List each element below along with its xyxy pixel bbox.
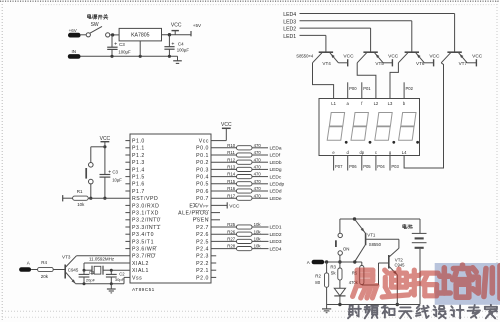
svg-text:P2.0: P2.0 — [196, 275, 209, 281]
svg-text:ALE/PROG: ALE/PROG — [178, 211, 209, 217]
svg-text:LED2: LED2 — [283, 27, 296, 33]
pin P02 (segment) — [404, 82, 414, 98]
svg-text:L1: L1 — [331, 101, 336, 106]
svg-text:+5V: +5V — [193, 23, 202, 28]
wire R1 to RST pin — [88, 197, 130, 199]
svg-text:P04: P04 — [377, 164, 385, 169]
svg-text:VCC: VCC — [472, 54, 483, 60]
svg-text:P3.2/INT0: P3.2/INT0 — [132, 218, 160, 224]
wire XIAL1 — [83, 269, 131, 272]
svg-text:P2.6: P2.6 — [196, 232, 209, 238]
transistor VT7 S8550 — [441, 52, 476, 66]
resistor R26 10k — [211, 229, 269, 236]
svg-text:P2.1: P2.1 — [196, 268, 209, 274]
svg-text:P1.0: P1.0 — [132, 139, 145, 145]
digit glyph 4 — [399, 113, 419, 144]
svg-text:L4: L4 — [402, 150, 407, 155]
svg-text:R15: R15 — [227, 179, 235, 184]
svg-text:10k: 10k — [254, 237, 262, 242]
svg-text:LED1: LED1 — [283, 34, 296, 40]
svg-text:P0.7: P0.7 — [196, 196, 209, 202]
svg-text:LED1: LED1 — [270, 225, 282, 231]
svg-text:R4: R4 — [41, 260, 47, 265]
svg-text:5k: 5k — [331, 271, 336, 276]
svg-text:VCC: VCC — [388, 54, 399, 60]
VCC tie (VT7 emitter) — [472, 54, 483, 67]
wire battery top rail, node — [340, 217, 420, 220]
svg-text:R16: R16 — [227, 186, 235, 191]
resistor R13 470 — [211, 165, 268, 172]
svg-text:20pF: 20pF — [86, 277, 96, 282]
svg-text:LED4: LED4 — [283, 12, 296, 18]
svg-text:470: 470 — [254, 143, 262, 148]
svg-text:P0.3: P0.3 — [196, 167, 209, 173]
svg-text:100µF: 100µF — [118, 49, 131, 54]
svg-text:VT1: VT1 — [367, 232, 376, 237]
MCU right pin labels — [178, 139, 209, 282]
wire to reset button — [91, 147, 105, 163]
transistor VT3 C945 — [62, 255, 79, 284]
svg-text:P3.1/TXD: P3.1/TXD — [132, 211, 159, 217]
wire switch to regulator, node — [110, 33, 119, 36]
svg-text:P02: P02 — [406, 86, 414, 91]
svg-text:LEDdp: LEDdp — [270, 182, 285, 188]
svg-text:R27: R27 — [227, 237, 235, 242]
svg-text:R25: R25 — [227, 222, 235, 227]
watermark red text 易迪拓培训 — [353, 265, 500, 298]
svg-text:XIAL1: XIAL1 — [132, 268, 149, 274]
resistor R15 470 — [211, 179, 268, 186]
svg-text:LEDc: LEDc — [270, 174, 282, 180]
svg-text:P3.7/RD: P3.7/RD — [132, 254, 155, 260]
svg-text:Vss: Vss — [132, 275, 142, 281]
capacitor C3 100uF — [107, 35, 131, 56]
resistor R17 470 — [211, 193, 268, 200]
svg-text:100µF: 100µF — [177, 48, 190, 53]
wire LED1 to driver base — [300, 35, 326, 52]
ground — [173, 56, 182, 63]
capacitor C2 30pF — [106, 270, 125, 285]
wire switch to node A rail — [338, 255, 341, 263]
VCC tie (VT4 emitter) — [343, 54, 354, 67]
wire VT6 collector to L3 — [390, 63, 398, 99]
svg-text:P3.4/T0: P3.4/T0 — [132, 232, 154, 238]
transistor VT1 S8550 — [355, 219, 399, 261]
svg-text:R26: R26 — [227, 229, 235, 234]
resistor R16 470 — [211, 186, 268, 193]
label 电池 (battery) — [403, 224, 412, 228]
wire R4 to VT3 base — [53, 269, 64, 271]
svg-text:SW: SW — [91, 22, 99, 28]
svg-text:C3: C3 — [119, 42, 125, 47]
svg-text:+6V: +6V — [69, 28, 77, 33]
svg-text:470: 470 — [254, 150, 262, 155]
svg-text:c: c — [375, 150, 377, 155]
svg-text:470: 470 — [254, 179, 262, 184]
svg-text:P00: P00 — [349, 86, 357, 91]
svg-text:XIAL2: XIAL2 — [132, 261, 149, 267]
resistor R12 470 — [211, 157, 268, 164]
svg-text:VT5: VT5 — [375, 61, 384, 66]
svg-text:P3.5/T1: P3.5/T1 — [132, 239, 154, 245]
svg-text:R13: R13 — [227, 165, 235, 170]
svg-text:470: 470 — [254, 193, 262, 198]
wire LED2 to driver base — [300, 28, 371, 52]
terminal A (left) — [19, 260, 31, 271]
svg-text:ON: ON — [343, 247, 350, 252]
wire button to RST — [89, 184, 92, 200]
wire VT7 collector to L4 — [404, 63, 443, 168]
svg-text:P3.6/WR: P3.6/WR — [132, 247, 157, 253]
svg-text:+: + — [171, 42, 174, 48]
svg-text:S8550: S8550 — [369, 242, 382, 247]
terminal +5V — [191, 23, 202, 37]
svg-text:P2.2: P2.2 — [196, 261, 209, 267]
svg-text:LEDe: LEDe — [270, 196, 282, 202]
svg-text:P2.7: P2.7 — [196, 225, 209, 231]
VCC supply symbol — [171, 22, 182, 34]
svg-text:VCC: VCC — [221, 122, 232, 128]
wire XIAL2 — [84, 263, 130, 270]
transistor VT2 C945 — [379, 248, 406, 274]
svg-text:L2: L2 — [374, 101, 379, 106]
resistor R14 470 — [211, 172, 268, 179]
MCU left pin stubs — [125, 141, 130, 249]
svg-text:LEDf: LEDf — [270, 153, 281, 159]
label 电源开关 (power switch) — [88, 14, 108, 19]
transistor VT6 S8550 — [398, 52, 433, 66]
display top pin names — [331, 101, 406, 106]
pin P01 (segment) — [362, 82, 372, 98]
svg-text:P0.1: P0.1 — [196, 153, 209, 159]
wire VT4 collector to L1 — [313, 63, 334, 99]
pin P04 (segment) — [376, 156, 386, 171]
node reset top — [103, 145, 106, 148]
wire VT2 emitter to ground rail — [396, 275, 399, 306]
pin P05 (segment) — [362, 156, 372, 171]
svg-text:VCC: VCC — [429, 54, 440, 60]
capacitor C3 10uF (reset) — [100, 147, 123, 200]
svg-text:P1.3: P1.3 — [132, 160, 145, 166]
svg-text:P06: P06 — [349, 164, 357, 169]
wire LED4 to driver base — [300, 14, 455, 53]
svg-text:IN: IN — [72, 49, 77, 54]
wire node A rail — [324, 260, 362, 263]
svg-text:R3: R3 — [330, 265, 336, 270]
svg-text:LEDa: LEDa — [270, 146, 282, 152]
svg-text:P1.7: P1.7 — [132, 189, 145, 195]
svg-text:R1: R1 — [77, 189, 83, 194]
wire regulator output, node — [162, 33, 192, 36]
svg-text:R17: R17 — [227, 193, 235, 198]
wire VT3 collector to MCU — [76, 255, 130, 257]
wire +6V to switch — [81, 34, 86, 36]
svg-text:LED4: LED4 — [270, 246, 282, 252]
diode VD1 — [334, 288, 345, 304]
svg-text:VCC: VCC — [229, 203, 240, 209]
svg-text:P0.5: P0.5 — [196, 182, 209, 188]
svg-text:80: 80 — [315, 280, 320, 285]
svg-text:20k: 20k — [41, 274, 49, 279]
wire battery bottom rail — [327, 303, 420, 306]
svg-text:P0.6: P0.6 — [196, 189, 209, 195]
ground (battery circuit) — [322, 305, 331, 313]
svg-text:P01: P01 — [363, 86, 371, 91]
wire regulator GND pin — [139, 41, 141, 56]
svg-text:VT3: VT3 — [62, 255, 71, 260]
svg-text:C2: C2 — [119, 271, 125, 276]
wire rail to switch ON — [339, 219, 341, 233]
svg-text:VCC: VCC — [171, 22, 182, 28]
svg-text:P1.5: P1.5 — [132, 175, 145, 181]
terminal IN — [68, 49, 81, 59]
digit glyph 1 — [327, 113, 347, 144]
svg-text:P1.2: P1.2 — [132, 153, 145, 159]
svg-text:30pF: 30pF — [115, 277, 125, 282]
svg-text:10k: 10k — [254, 229, 262, 234]
svg-text:VCC: VCC — [343, 54, 354, 60]
resistor R11 470 — [211, 150, 268, 157]
terminal A (right) — [307, 260, 324, 265]
watermark text 射频和天线设计专家 — [348, 305, 497, 319]
resistor R27 10k — [211, 237, 269, 244]
svg-text:LEDd: LEDd — [270, 189, 282, 195]
svg-text:C3: C3 — [112, 170, 118, 175]
svg-text:P1.4: P1.4 — [132, 167, 145, 173]
capacitor C1 20pF — [79, 270, 96, 285]
VCC supply symbol (MCU Vcc) — [211, 122, 232, 141]
svg-text:470: 470 — [254, 157, 262, 162]
resistor R5 470k — [349, 262, 364, 285]
svg-text:C4: C4 — [178, 41, 184, 46]
wire LED3 to driver base — [300, 21, 412, 52]
MCU right pin stubs — [211, 213, 220, 278]
svg-text:C945: C945 — [68, 267, 79, 272]
resistor R2 80 — [315, 262, 328, 305]
svg-text:RST/VPD: RST/VPD — [132, 196, 158, 202]
resistor R4 20k — [38, 260, 54, 279]
svg-text:10k: 10k — [254, 244, 262, 249]
svg-text:C1: C1 — [89, 270, 95, 275]
svg-text:Vcc: Vcc — [199, 139, 209, 145]
svg-text:A: A — [307, 260, 310, 265]
pin P00 (segment) — [348, 82, 358, 98]
pin P07 (segment) — [334, 156, 344, 171]
svg-text:P3.0/RXD: P3.0/RXD — [132, 203, 159, 209]
svg-text:LEDb: LEDb — [270, 160, 282, 166]
svg-text:P05: P05 — [363, 164, 371, 169]
svg-text:+: + — [114, 41, 117, 47]
svg-text:10µF: 10µF — [112, 177, 122, 182]
svg-text:R2: R2 — [315, 273, 321, 278]
svg-text:10k: 10k — [254, 222, 262, 227]
transistor VT4 S8550 — [313, 52, 348, 66]
svg-text:P0.2: P0.2 — [196, 160, 209, 166]
digit glyph 3 — [375, 113, 395, 144]
resistor R10 470 — [211, 143, 268, 150]
resistor R25 10k — [211, 222, 269, 229]
watermark blue box — [435, 263, 500, 305]
svg-text:A: A — [27, 260, 30, 265]
resistor R28 10k — [211, 244, 269, 251]
ground (crystal) — [107, 284, 116, 293]
svg-text:11.0592MHz: 11.0592MHz — [89, 256, 115, 261]
transistor VT5 S8550 — [357, 52, 392, 66]
digit glyph 2 — [351, 113, 371, 144]
svg-text:P0.0: P0.0 — [196, 146, 209, 152]
svg-text:L3: L3 — [388, 101, 393, 106]
svg-text:P1.1: P1.1 — [132, 146, 145, 152]
svg-text:S8550×4: S8550×4 — [296, 54, 314, 59]
VCC tie (VT6 emitter) — [429, 54, 440, 67]
svg-text:PSEN: PSEN — [193, 218, 209, 224]
svg-text:LED2: LED2 — [270, 232, 282, 238]
pin P06 (segment) — [348, 156, 358, 171]
svg-text:R10: R10 — [227, 143, 235, 148]
resistor R3 5k — [330, 262, 342, 288]
push-button S1 — [86, 163, 93, 184]
display bottom pin names — [332, 150, 407, 155]
svg-text:AT89C51: AT89C51 — [132, 287, 155, 293]
svg-text:R14: R14 — [227, 172, 235, 177]
svg-text:LEDg: LEDg — [270, 167, 282, 173]
VCC supply symbol (reset) — [100, 136, 111, 147]
svg-text:R11: R11 — [227, 150, 235, 155]
svg-text:P1.6: P1.6 — [132, 182, 145, 188]
svg-text:470: 470 — [254, 172, 262, 177]
svg-text:P2.4: P2.4 — [196, 247, 209, 253]
svg-text:470: 470 — [254, 165, 262, 170]
MCU left pin labels — [132, 139, 160, 282]
VCC tie (VT5 emitter) — [388, 54, 399, 67]
ground rail wire — [81, 55, 178, 58]
svg-text:LED3: LED3 — [283, 19, 296, 25]
svg-text:10k: 10k — [77, 202, 85, 207]
switch SW — [86, 26, 110, 37]
svg-text:470: 470 — [254, 186, 262, 191]
VCC tie (EA/Vpp) — [211, 202, 240, 209]
wire VT3 emitter rail — [76, 277, 131, 283]
wire R5 to VT2 base — [362, 263, 379, 285]
svg-text:VT4: VT4 — [322, 61, 331, 66]
svg-text:VT6: VT6 — [416, 61, 425, 66]
svg-text:R12: R12 — [227, 157, 235, 162]
svg-text:KA7805: KA7805 — [131, 33, 150, 39]
svg-text:P2.3: P2.3 — [196, 254, 209, 260]
display DS1 4-digit 7-segment — [319, 99, 420, 156]
svg-text:VT7: VT7 — [459, 61, 468, 66]
pin P03 (segment) — [390, 156, 400, 171]
svg-text:dp: dp — [359, 150, 364, 155]
svg-text:LED3: LED3 — [270, 239, 282, 245]
wire A to R4 — [31, 269, 37, 271]
MCU U1 AT89C51 — [130, 134, 211, 293]
svg-text:P3.3/INT1: P3.3/INT1 — [132, 225, 160, 231]
terminal +6V — [68, 28, 81, 38]
crystal Y1 11.0592MHz — [84, 256, 115, 274]
resistor R1 10k — [63, 189, 88, 207]
switch ON — [336, 233, 350, 255]
wire VT5 collector to L2 — [357, 63, 376, 99]
svg-text:R28: R28 — [227, 244, 235, 249]
regulator U KA7805 — [119, 28, 161, 41]
capacitor C4 100uF — [164, 35, 189, 57]
battery GB — [412, 219, 427, 305]
svg-text:P0.4: P0.4 — [196, 175, 209, 181]
svg-text:+: + — [108, 170, 111, 176]
svg-text:P07: P07 — [335, 164, 343, 169]
svg-text:P2.5: P2.5 — [196, 239, 209, 245]
svg-text:P03: P03 — [391, 164, 399, 169]
